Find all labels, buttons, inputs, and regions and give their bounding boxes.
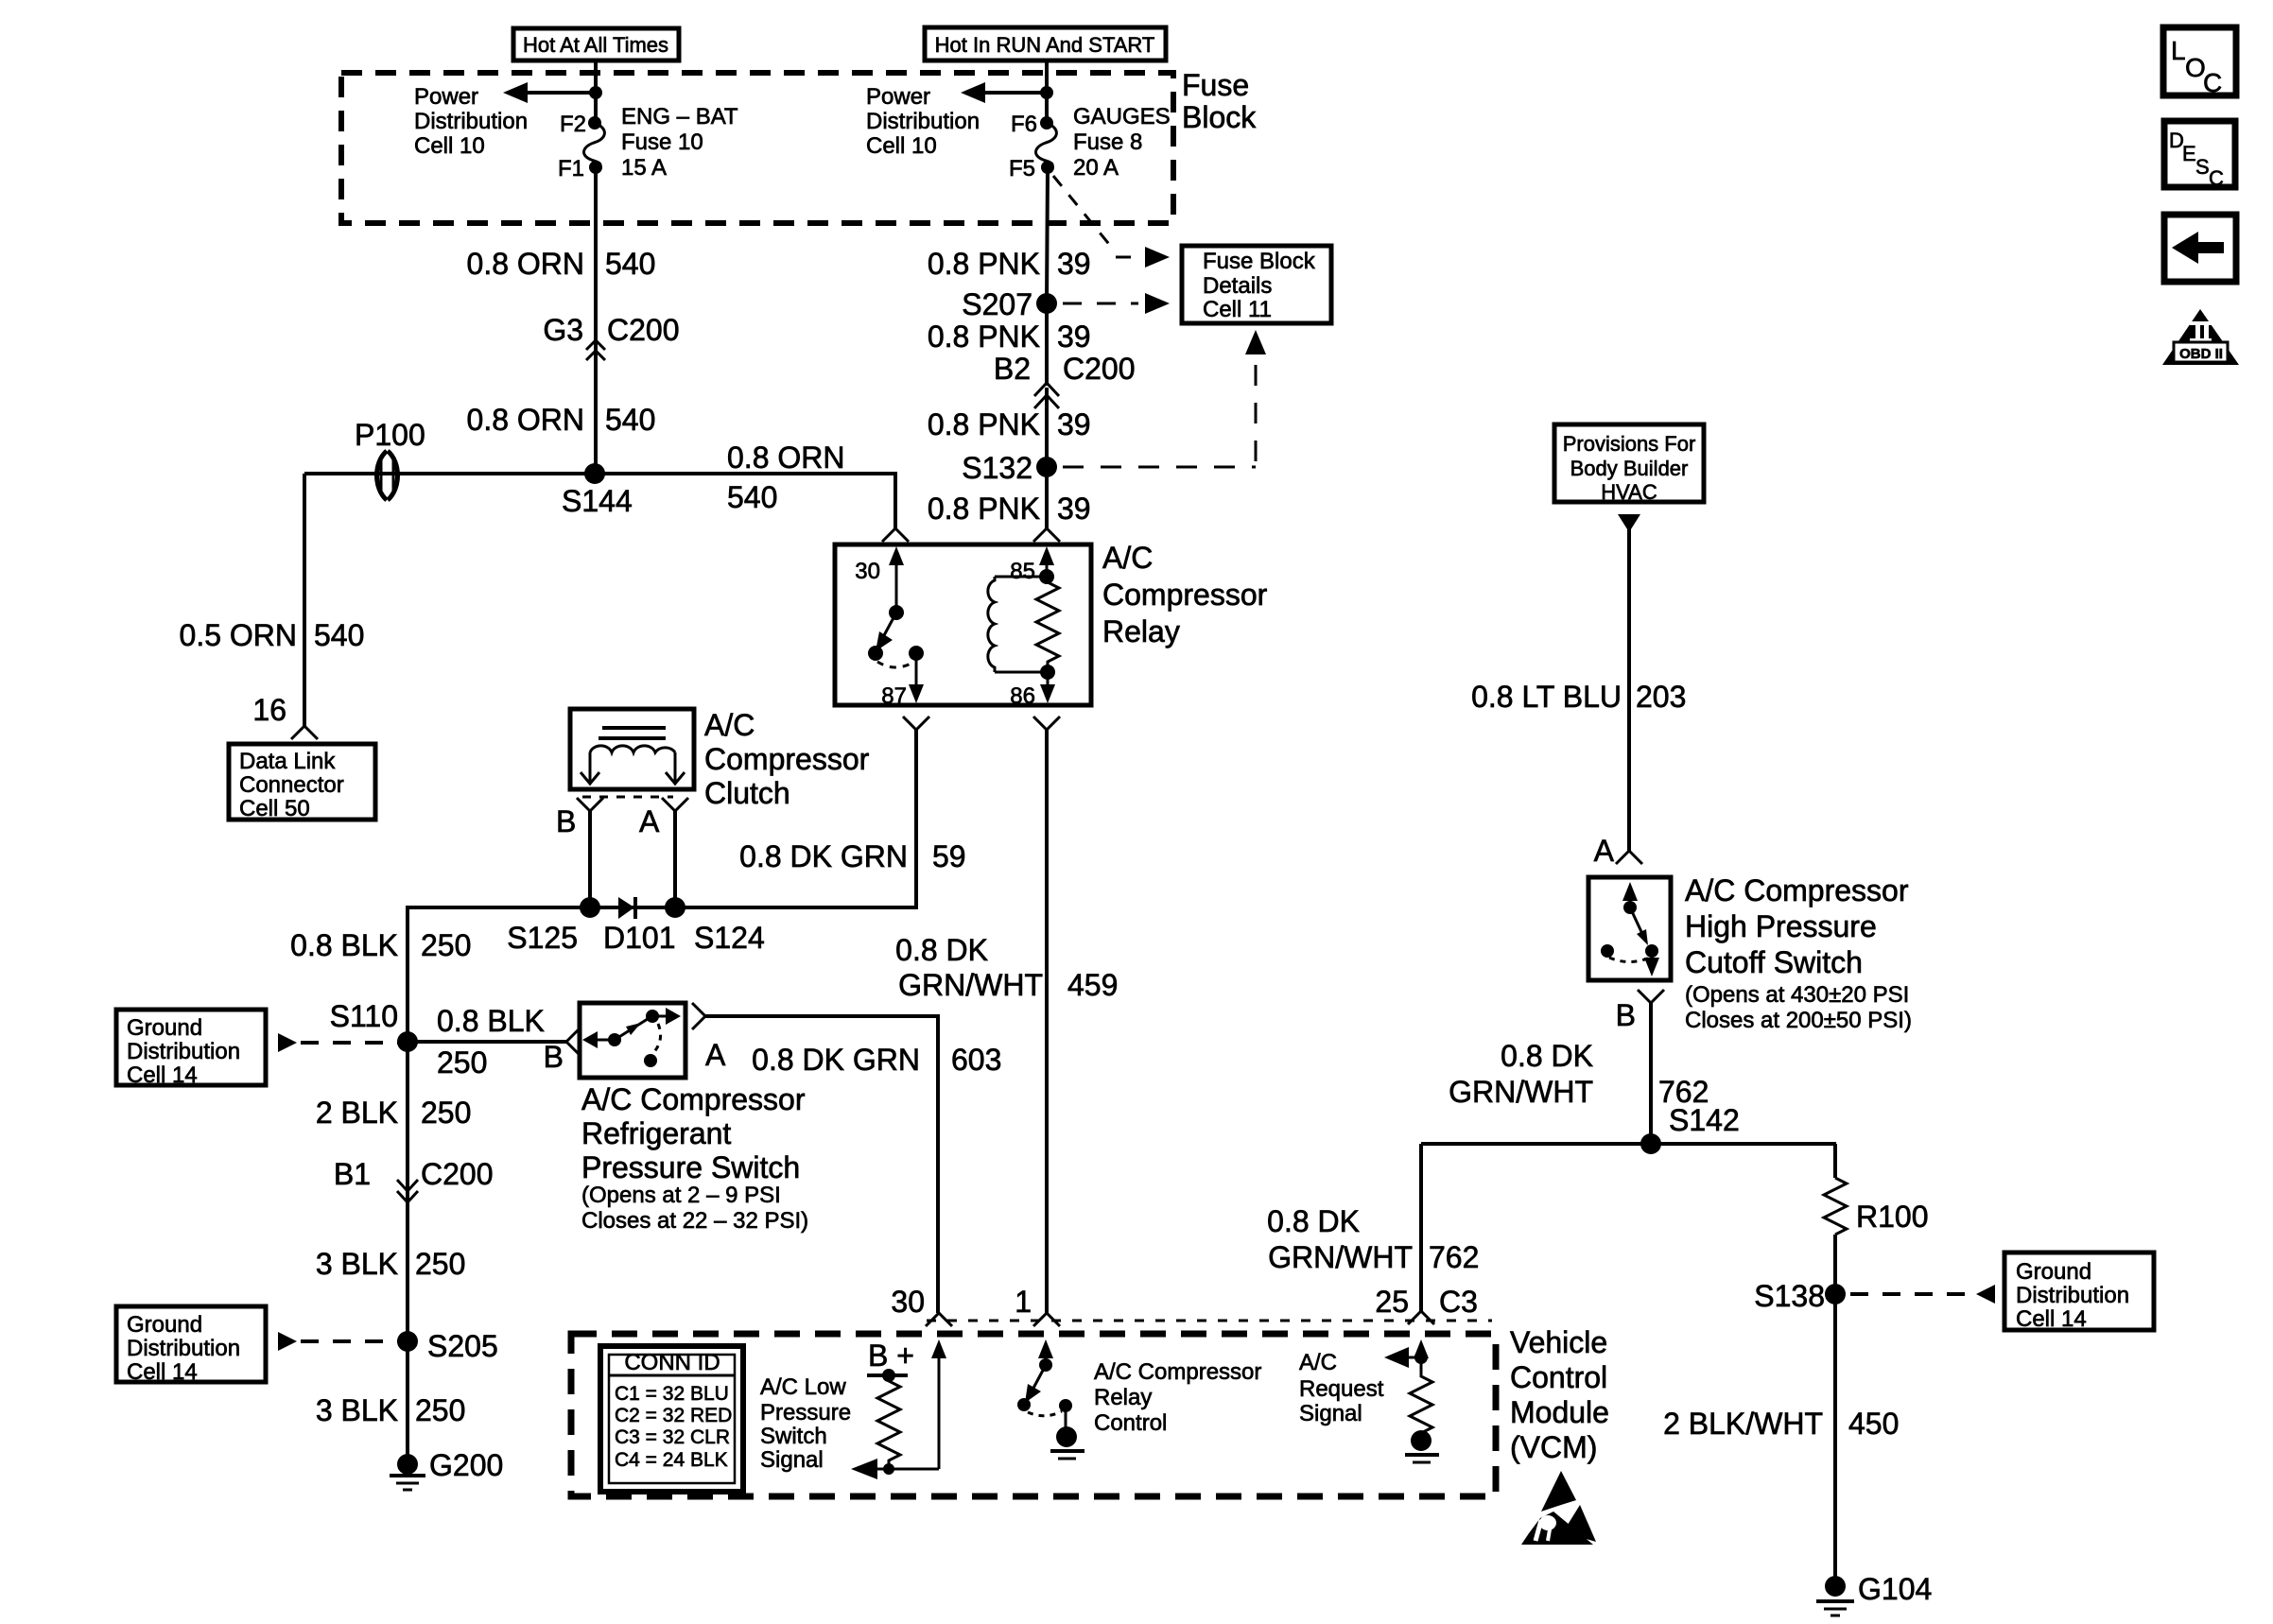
svg-text:C: C — [2203, 68, 2222, 97]
svg-text:Distribution: Distribution — [127, 1039, 240, 1064]
svg-text:Compressor: Compressor — [704, 742, 870, 776]
ground G200 — [390, 1448, 503, 1490]
svg-text:Request: Request — [1299, 1376, 1384, 1402]
svg-text:Signal: Signal — [1299, 1401, 1362, 1426]
svg-text:Cell 10: Cell 10 — [414, 133, 485, 159]
svg-text:450: 450 — [1848, 1407, 1899, 1441]
node: junction to power distribution (right) — [1040, 86, 1053, 99]
label 0.8 PNK 39 (4) — [928, 492, 1091, 526]
label B2 C200 — [994, 352, 1136, 386]
label Power Distribution Cell 10 (right) — [866, 84, 980, 159]
svg-text:0.8 ORN: 0.8 ORN — [467, 403, 584, 437]
connector C200 (BLK wire) double chevron — [397, 1180, 418, 1202]
pin 30 of relay — [855, 546, 904, 613]
wire: S144 to P100 to corner — [304, 472, 595, 475]
svg-text:Distribution: Distribution — [127, 1336, 240, 1361]
node: Hot In RUN And START header box — [925, 27, 1166, 60]
label GAUGES Fuse 8 20 A — [1073, 104, 1171, 181]
svg-text:B +: B + — [868, 1339, 914, 1373]
svg-text:C: C — [2209, 166, 2224, 190]
label Power Distribution Cell 10 (left) — [414, 84, 528, 159]
svg-text:30: 30 — [855, 559, 880, 584]
label G3 C200 — [543, 313, 679, 347]
node: splice S110 — [330, 999, 418, 1052]
svg-text:16: 16 — [252, 693, 286, 727]
svg-text:250: 250 — [421, 1096, 471, 1130]
svg-text:B2: B2 — [994, 352, 1031, 386]
connector chevron below relay pin 86 — [1033, 717, 1060, 730]
svg-text:OBD II: OBD II — [2179, 346, 2223, 362]
svg-text:A: A — [1594, 834, 1615, 868]
svg-text:Details: Details — [1203, 273, 1272, 299]
svg-text:Cell 14: Cell 14 — [127, 1063, 198, 1088]
svg-text:C2 = 32 RED: C2 = 32 RED — [615, 1405, 732, 1426]
svg-text:Module: Module — [1510, 1395, 1609, 1429]
node: Fuse Block Details Cell 11 box — [1182, 246, 1331, 323]
svg-text:Closes at 22 – 32 PSI): Closes at 22 – 32 PSI) — [581, 1208, 808, 1234]
label 0.8 DK GRN/WHT 762 (upper) — [1449, 1039, 1709, 1109]
clutch: A/C Compressor Clutch box — [570, 709, 694, 789]
svg-text:Cell 50: Cell 50 — [239, 796, 310, 821]
svg-text:Vehicle: Vehicle — [1510, 1325, 1607, 1359]
fuse ENG-BAT Fuse 10 15A symbol — [584, 123, 605, 167]
svg-text:0.8 PNK: 0.8 PNK — [928, 492, 1040, 526]
svg-text:39: 39 — [1057, 492, 1091, 526]
VCM connector boundary dashed line — [927, 1320, 1492, 1322]
node: Ground Distribution Cell 14 box (upper) — [116, 1010, 266, 1088]
svg-text:Connector: Connector — [239, 772, 344, 798]
connector chevron at relay pin 85 — [1033, 528, 1060, 542]
svg-text:A/C: A/C — [704, 708, 755, 742]
svg-text:S142: S142 — [1669, 1103, 1740, 1137]
wire: 0.8 DK GRN/WHT 762 to S142 — [1649, 1003, 1653, 1144]
wire: relay 87 down to ground run — [408, 730, 916, 1042]
label 3 BLK 250 (lower) — [316, 1393, 466, 1427]
svg-text:S132: S132 — [962, 451, 1032, 485]
svg-text:25: 25 — [1375, 1285, 1409, 1319]
node B+ inside VCM — [867, 1339, 914, 1382]
wire: arrow to Power Distribution (left) — [503, 82, 596, 103]
wire: 3 BLK 250 to G200 — [406, 1341, 409, 1464]
svg-text:Closes at 200±50 PSI): Closes at 200±50 PSI) — [1685, 1008, 1912, 1033]
svg-text:F1: F1 — [558, 156, 584, 181]
svg-text:G200: G200 — [429, 1448, 503, 1482]
svg-text:P100: P100 — [355, 418, 425, 452]
label A/C Compressor High Pressure Cutoff Switch — [1685, 873, 1912, 1033]
svg-text:Body Builder: Body Builder — [1570, 457, 1689, 480]
svg-text:Block: Block — [1182, 100, 1257, 134]
wire: dashed reference S132 to Fuse Block Details — [1063, 330, 1266, 467]
svg-text:0.8 PNK: 0.8 PNK — [928, 247, 1040, 281]
wire: 0.8 PNK 39 from fuse F5 — [1047, 167, 1048, 303]
svg-text:A/C: A/C — [1299, 1350, 1337, 1375]
wire: dashed reference S207 to Fuse Block Details — [1063, 293, 1170, 314]
switch: A/C Compressor Refrigerant Pressure Switch box — [580, 1003, 685, 1078]
svg-text:Ground: Ground — [127, 1015, 202, 1041]
svg-text:Hot In RUN And START: Hot In RUN And START — [935, 33, 1155, 57]
resistor R100 — [1824, 1178, 1929, 1235]
node: Data Link Connector Cell 50 box — [229, 744, 375, 821]
node: splice S124 — [665, 897, 765, 955]
wire: 0.8 PNK 39 S132 to relay pin 85 — [1045, 467, 1049, 528]
connector chevron pressure switch A — [692, 1003, 705, 1029]
svg-text:GAUGES: GAUGES — [1073, 104, 1171, 130]
svg-text:Power: Power — [866, 84, 930, 110]
svg-text:B: B — [544, 1040, 564, 1074]
resistor: A/C low pressure pull-up — [877, 1375, 900, 1469]
relay coil top node — [1039, 569, 1054, 584]
wire: R100 to S138 — [1833, 1235, 1837, 1294]
label 3 BLK 250 (upper) — [316, 1247, 466, 1281]
clutch coil leads with arrows — [581, 752, 685, 784]
relay: A/C Compressor Relay box — [835, 544, 1091, 705]
svg-text:0.8 DK: 0.8 DK — [1267, 1204, 1360, 1238]
connector chevron at DLC pin 16 — [291, 726, 318, 739]
svg-text:A: A — [705, 1038, 726, 1072]
svg-text:S205: S205 — [427, 1329, 498, 1363]
svg-text:Control: Control — [1094, 1410, 1167, 1436]
label 0.8 PNK 39 (1) — [928, 247, 1091, 281]
svg-text:540: 540 — [727, 480, 777, 514]
svg-text:HVAC: HVAC — [1601, 480, 1657, 504]
svg-text:0.8 BLK: 0.8 BLK — [290, 928, 398, 962]
module: Vehicle Control Module dashed box — [571, 1334, 1496, 1496]
label 0.8 DK GRN 59 — [739, 839, 965, 873]
svg-text:0.8 BLK: 0.8 BLK — [437, 1004, 545, 1038]
pin 30 of VCM — [891, 1285, 952, 1326]
label A/C Compressor Relay — [1102, 541, 1268, 648]
svg-text:Ground: Ground — [127, 1312, 202, 1338]
svg-text:85: 85 — [1010, 559, 1035, 584]
svg-text:B: B — [556, 804, 576, 838]
label Fuse Block — [1182, 68, 1257, 134]
svg-text:Distribution: Distribution — [2016, 1283, 2129, 1308]
label 0.8 PNK 39 (3) — [928, 407, 1091, 441]
svg-text:S125: S125 — [507, 921, 578, 955]
svg-text:A/C: A/C — [1102, 541, 1153, 575]
svg-text:0.8 ORN: 0.8 ORN — [467, 247, 584, 281]
svg-text:540: 540 — [605, 247, 655, 281]
svg-text:250: 250 — [415, 1393, 465, 1427]
connector chevron clutch terminal A — [662, 798, 688, 811]
svg-text:R100: R100 — [1856, 1200, 1929, 1234]
svg-text:762: 762 — [1429, 1240, 1479, 1274]
svg-text:C3 = 32 CLR: C3 = 32 CLR — [615, 1426, 730, 1448]
svg-text:Data Link: Data Link — [239, 749, 336, 774]
connector P100 symbol — [377, 451, 398, 500]
svg-text:Ground: Ground — [2016, 1259, 2091, 1285]
label A/C Request Signal — [1299, 1350, 1384, 1426]
wire: 0.8 DK GRN 603 to VCM pin 30 — [705, 1016, 938, 1313]
svg-text:S: S — [2195, 155, 2210, 179]
svg-text:A/C Compressor: A/C Compressor — [581, 1082, 806, 1116]
clutch connector dashed face — [582, 796, 673, 799]
label A/C Compressor Clutch — [704, 708, 870, 810]
pin F2 — [560, 112, 601, 137]
wire: dashed reference S138 to Ground box — [1850, 1285, 1995, 1304]
relay coil bottom node — [1040, 665, 1055, 680]
svg-text:459: 459 — [1067, 968, 1118, 1002]
svg-text:Cell 10: Cell 10 — [866, 133, 937, 159]
svg-text:3 BLK: 3 BLK — [316, 1393, 398, 1427]
pin 87 of relay — [881, 653, 924, 709]
pin 1 of VCM — [1015, 1285, 1060, 1326]
svg-text:39: 39 — [1057, 320, 1091, 354]
icon DESC box — [2164, 121, 2235, 190]
wire: BLK down from S110 — [406, 1042, 409, 1341]
icon OBD II triangle — [2162, 309, 2239, 365]
label ENG-BAT Fuse 10 15 A — [621, 104, 738, 181]
node: splice S144 — [562, 463, 633, 518]
svg-text:Relay: Relay — [1094, 1385, 1152, 1410]
svg-text:F5: F5 — [1009, 156, 1035, 181]
svg-text:E: E — [2182, 142, 2196, 165]
fuse GAUGES Fuse 8 20A symbol — [1036, 123, 1057, 167]
svg-text:Signal: Signal — [760, 1447, 824, 1473]
pin F1 — [558, 156, 602, 181]
wire: 0.8 ORN 540 S144 to relay pin 30 — [595, 474, 895, 528]
wire: dashed reference Ground box to S110 — [278, 1033, 401, 1052]
switch: A/C Compressor High Pressure Cutoff Switch box — [1588, 877, 1671, 980]
wire: 0.8 PNK 39 C200 to S132 — [1045, 388, 1049, 467]
node: splice S138 — [1754, 1279, 1846, 1313]
wire: 0.5 ORN 540 down to DLC — [303, 474, 306, 726]
label 0.5 ORN 540 — [180, 618, 365, 652]
relay common contact node — [889, 605, 904, 620]
wire: 0.8 ORN 540 from fuse F1 — [594, 167, 598, 364]
wire: 762 branch down to VCM pin 25 — [1419, 1144, 1423, 1311]
svg-text:C4 = 24 BLK: C4 = 24 BLK — [615, 1449, 728, 1471]
label 0.8 PNK 39 (2) — [928, 320, 1091, 354]
svg-text:A/C Compressor: A/C Compressor — [1685, 873, 1909, 907]
svg-text:(Opens at 2 – 9 PSI: (Opens at 2 – 9 PSI — [581, 1183, 781, 1208]
svg-text:250: 250 — [415, 1247, 465, 1281]
connector chevron high pressure switch B — [1638, 990, 1664, 1003]
connector chevron below relay pin 87 — [903, 717, 929, 730]
high pressure switch internals — [1601, 882, 1659, 976]
pin 85 of relay — [1010, 546, 1054, 584]
svg-text:0.8 ORN: 0.8 ORN — [727, 441, 844, 475]
svg-text:0.8 DK: 0.8 DK — [1501, 1039, 1593, 1073]
wire: ignition feed into fuse block (right) — [1045, 60, 1049, 123]
svg-text:Clutch: Clutch — [704, 776, 790, 810]
label 0.8 ORN 540 (upper) — [467, 247, 656, 281]
wire: branch down to R100 — [1833, 1144, 1837, 1178]
svg-text:Refrigerant: Refrigerant — [581, 1116, 731, 1150]
label A/C Low Pressure Switch Signal — [760, 1374, 851, 1473]
svg-text:87: 87 — [881, 683, 907, 709]
svg-text:S144: S144 — [562, 484, 633, 518]
svg-text:15 A: 15 A — [621, 155, 667, 181]
svg-text:C1 = 32 BLU: C1 = 32 BLU — [615, 1383, 729, 1405]
connector chevron clutch terminal B — [577, 798, 603, 811]
svg-text:Fuse Block: Fuse Block — [1203, 249, 1316, 274]
svg-text:GRN/WHT: GRN/WHT — [1268, 1240, 1413, 1274]
wire: arrow to Power Distribution (right) — [961, 82, 1047, 103]
svg-text:Provisions For: Provisions For — [1563, 432, 1696, 456]
svg-text:A: A — [639, 804, 660, 838]
wire: S142 horizontal run — [1421, 1142, 1836, 1146]
pin 87 contact node — [909, 646, 924, 661]
wire: low pressure switch signal path inside VCM — [851, 1339, 946, 1479]
relay normally-open contact — [868, 646, 883, 661]
svg-text:Cell 11: Cell 11 — [1203, 297, 1272, 322]
relay coil — [988, 577, 1048, 672]
svg-text:Cutoff Switch: Cutoff Switch — [1685, 945, 1863, 979]
svg-text:59: 59 — [932, 839, 966, 873]
pin 25 of VCM connector C3 — [1375, 1285, 1478, 1324]
svg-text:GRN/WHT: GRN/WHT — [898, 968, 1043, 1002]
relay actuation dashed arc — [877, 662, 914, 667]
diode D101 — [603, 897, 676, 955]
node: Ground Distribution Cell 14 box (right) — [2004, 1253, 2154, 1332]
svg-text:S138: S138 — [1754, 1279, 1825, 1313]
label 0.8 DK GRN 603 — [752, 1043, 1001, 1077]
svg-text:30: 30 — [891, 1285, 925, 1319]
svg-text:2 BLK/WHT: 2 BLK/WHT — [1663, 1407, 1823, 1441]
node: splice S132 — [962, 451, 1057, 485]
svg-text:Fuse: Fuse — [1182, 68, 1249, 102]
svg-text:Hot At All Times: Hot At All Times — [523, 33, 668, 57]
svg-text:0.5 ORN: 0.5 ORN — [180, 618, 297, 652]
svg-text:Pressure: Pressure — [760, 1400, 851, 1425]
svg-text:C200: C200 — [421, 1157, 494, 1191]
wire: clutch B to S125 — [588, 811, 592, 907]
connector chevron at relay pin 30 — [882, 528, 909, 542]
label 0.8 ORN 540 (lower) — [467, 403, 656, 437]
svg-text:A/C Low: A/C Low — [760, 1374, 846, 1400]
wire: 2 BLK/WHT 450 to G104 — [1833, 1294, 1837, 1586]
svg-text:CONN ID: CONN ID — [624, 1350, 720, 1375]
svg-text:C200: C200 — [607, 313, 680, 347]
svg-text:GRN/WHT: GRN/WHT — [1449, 1075, 1593, 1109]
svg-text:C200: C200 — [1063, 352, 1136, 386]
svg-text:0.8 DK GRN: 0.8 DK GRN — [739, 839, 908, 873]
svg-text:High Pressure: High Pressure — [1685, 909, 1877, 943]
svg-text:0.8 LT BLU: 0.8 LT BLU — [1471, 680, 1622, 714]
wire: S110 to pressure switch B — [408, 1040, 566, 1044]
svg-text:S110: S110 — [330, 999, 398, 1033]
node: splice S205 — [397, 1329, 498, 1363]
label 0.8 LT BLU 203 — [1471, 680, 1686, 714]
icon LOC box — [2163, 27, 2236, 97]
VCM relay control driver — [1017, 1339, 1084, 1459]
wire: 0.8 DK GRN/WHT 459 relay 86 to VCM pin 1 — [1045, 730, 1049, 1313]
svg-text:Cell 14: Cell 14 — [2016, 1306, 2087, 1332]
wire: 0.8 LT BLU 203 — [1627, 529, 1631, 851]
pin F6 — [1011, 112, 1053, 137]
svg-text:250: 250 — [437, 1045, 487, 1080]
relay coil shunt resistor — [1036, 577, 1059, 672]
ground G104 — [1816, 1572, 1932, 1615]
node: splice S142 — [1640, 1103, 1740, 1154]
wire: HVAC provision arrow — [1618, 514, 1640, 532]
svg-text:F2: F2 — [560, 112, 586, 137]
svg-text:Fuse 8: Fuse 8 — [1073, 130, 1142, 155]
svg-text:540: 540 — [314, 618, 364, 652]
node: Ground Distribution Cell 14 box (lower) — [116, 1306, 266, 1385]
svg-text:Distribution: Distribution — [866, 109, 980, 134]
svg-text:86: 86 — [1010, 683, 1035, 709]
wire: 0.8 ORN 540 below C200 — [594, 364, 598, 474]
svg-text:Cell 14: Cell 14 — [127, 1359, 198, 1385]
connector C200 (PNK wire) double chevron — [1034, 383, 1059, 408]
node: splice S125 — [507, 897, 600, 955]
svg-text:Pressure Switch: Pressure Switch — [581, 1150, 800, 1184]
pin 86 of relay — [1010, 672, 1055, 709]
svg-text:ENG – BAT: ENG – BAT — [621, 104, 738, 130]
svg-text:Power: Power — [414, 84, 478, 110]
svg-text:540: 540 — [605, 403, 655, 437]
svg-text:(Opens at 430±20 PSI: (Opens at 430±20 PSI — [1685, 982, 1909, 1008]
svg-text:203: 203 — [1636, 680, 1686, 714]
svg-text:C3: C3 — [1439, 1285, 1478, 1319]
icon back-arrow box — [2164, 215, 2236, 282]
wire: clutch A to S124 — [673, 811, 677, 907]
svg-text:B1: B1 — [334, 1157, 371, 1191]
svg-text:B: B — [1616, 998, 1636, 1032]
clutch core bars — [599, 728, 666, 738]
label 2 BLK 250 — [316, 1096, 472, 1130]
svg-text:A/C Compressor: A/C Compressor — [1094, 1359, 1261, 1385]
svg-text:S124: S124 — [694, 921, 765, 955]
label 0.8 DK GRN/WHT 762 (lower) — [1267, 1204, 1479, 1274]
node: splice S207 — [962, 287, 1057, 321]
node: Provisions For Body Builder HVAC box — [1554, 424, 1704, 504]
svg-text:39: 39 — [1057, 407, 1091, 441]
svg-text:G3: G3 — [543, 313, 583, 347]
table: CONN ID — [600, 1346, 743, 1492]
svg-text:20 A: 20 A — [1073, 155, 1119, 181]
svg-text:G104: G104 — [1858, 1572, 1932, 1606]
wire: dashed reference from fuse F5 to Fuse Block Details — [1053, 176, 1170, 268]
svg-text:603: 603 — [951, 1043, 1001, 1077]
pin F5 — [1009, 156, 1054, 181]
svg-text:S207: S207 — [962, 287, 1032, 321]
wire: battery feed into fuse block (left) — [594, 60, 598, 123]
wire: dashed reference Ground box to S205 — [278, 1332, 401, 1351]
clutch coil winding — [590, 746, 675, 752]
svg-text:2 BLK: 2 BLK — [316, 1096, 398, 1130]
fuse block dashed boundary — [341, 73, 1173, 223]
svg-text:3 BLK: 3 BLK — [316, 1247, 398, 1281]
svg-text:0.8 PNK: 0.8 PNK — [928, 320, 1040, 354]
connector C200 (ORN wire) double chevron — [586, 340, 605, 360]
svg-text:Compressor: Compressor — [1102, 578, 1268, 612]
ESD sensitivity symbol — [1521, 1471, 1596, 1545]
node: junction to power distribution (left) — [589, 86, 602, 99]
label 2 BLK/WHT 450 — [1663, 1407, 1899, 1441]
svg-text:(VCM): (VCM) — [1510, 1430, 1597, 1464]
label A/C Compressor Refrigerant Pressure Switch — [581, 1082, 808, 1234]
svg-text:L: L — [2171, 36, 2186, 65]
svg-text:1: 1 — [1015, 1285, 1032, 1319]
svg-text:0.8 PNK: 0.8 PNK — [928, 407, 1040, 441]
label Vehicle Control Module (VCM) — [1510, 1325, 1609, 1464]
svg-text:Fuse 10: Fuse 10 — [621, 130, 703, 155]
svg-text:250: 250 — [421, 928, 471, 962]
label 0.8 DK GRN/WHT 459 — [895, 933, 1118, 1002]
svg-text:Distribution: Distribution — [414, 109, 528, 134]
relay switch arm — [876, 613, 896, 651]
connector chevron pressure switch B — [566, 1028, 580, 1055]
label 0.8 BLK 250 (upper) — [290, 928, 471, 962]
svg-text:Control: Control — [1510, 1360, 1607, 1394]
VCM request signal circuit — [1384, 1339, 1439, 1462]
label A/C Compressor Relay Control — [1094, 1359, 1261, 1436]
svg-text:39: 39 — [1057, 247, 1091, 281]
svg-text:0.8 DK GRN: 0.8 DK GRN — [752, 1043, 920, 1077]
